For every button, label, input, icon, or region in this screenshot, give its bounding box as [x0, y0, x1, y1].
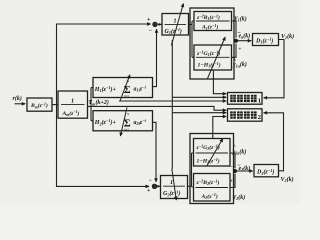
box Am fraction	[58, 91, 88, 118]
wire V1 feedback to mech1	[264, 40, 284, 98]
scan noise overlay	[0, 0, 1, 1]
summer 1	[147, 17, 157, 34]
box group2 outer	[190, 134, 234, 204]
box group1 outer	[190, 8, 234, 79]
junction 2	[233, 169, 237, 173]
wire adapt vertical mid	[171, 40, 173, 169]
summer 2	[147, 178, 157, 194]
wire 1/G2 to plant group 2	[188, 153, 194, 187]
wire H1 output up to summer 1	[153, 29, 157, 86]
adapt arrow through G1/(1-H1)	[208, 37, 226, 79]
box B1/A1 fraction	[194, 12, 232, 31]
adapt arrow through 1/G2	[172, 169, 177, 201]
wire Y2 tap	[230, 174, 235, 188]
box G1/(1-H1) fraction	[194, 45, 232, 70]
wire summer2 to 1/G2	[157, 185, 160, 187]
box H1	[93, 78, 153, 98]
adapt arrow through H2	[120, 108, 127, 137]
wire mech1 lower input long	[119, 100, 226, 102]
wire summer1 to 1/G1	[158, 23, 161, 25]
wire r(k) input arrow	[15, 103, 26, 105]
box G2/(1-H2) fraction	[194, 139, 231, 167]
wire feedback left rail	[57, 24, 151, 186]
box 1/G1 fraction	[162, 14, 189, 36]
wire H2 output down to summer 2	[153, 122, 157, 182]
wire 1/G1 to plant group 1	[189, 21, 195, 57]
box 1/G2 fraction	[161, 176, 188, 199]
box D2	[254, 165, 279, 177]
wire mech1 input from G1H1 box bottom tap	[213, 70, 226, 94]
wire yhat2a tap	[230, 153, 235, 168]
box D1	[253, 34, 279, 46]
adapt arrow through 1/G1	[171, 4, 183, 46]
wire Y1 tap	[232, 21, 237, 38]
wire Bm to Am	[52, 104, 58, 106]
junction 1	[234, 39, 238, 43]
box Bm	[27, 98, 52, 111]
wire junction1 to D1	[238, 40, 251, 42]
mech2 glyph blobs	[230, 111, 256, 118]
box mech1	[228, 93, 263, 105]
wire mech2 input from G2H2 box top tap	[213, 117, 226, 139]
adapt arrow through G2/(1-H2)	[207, 139, 223, 167]
wire yhat1a tap	[232, 44, 237, 58]
adapt arrow through H1	[120, 75, 130, 102]
wire V2 feedback to mech2	[264, 113, 284, 171]
wire junction2 to D2	[237, 170, 253, 172]
wire mech1 input from adapt vertical	[172, 96, 226, 98]
mech1 glyph blobs	[230, 95, 256, 102]
box B2/A2 fraction	[194, 174, 231, 202]
wire mech2 input from adapt vertical	[172, 112, 226, 114]
wire Am split to H1 H2	[91, 88, 93, 121]
wire Ym line to mech2	[88, 106, 227, 110]
box H2	[93, 111, 153, 131]
box mech2	[228, 109, 263, 121]
